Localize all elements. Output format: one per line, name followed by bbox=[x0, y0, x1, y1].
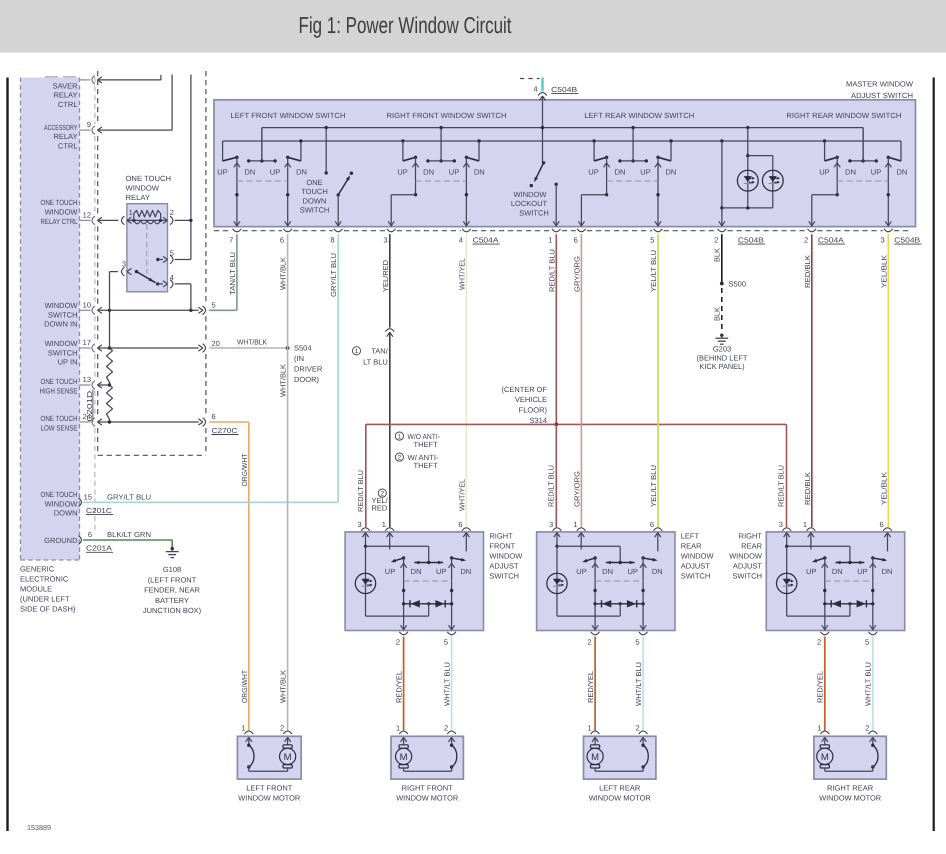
pin 1 stub bbox=[389, 533, 391, 550]
wire WHT/LT BLU adjust pin 5 to motor pin 2 bbox=[451, 637, 453, 731]
GEM pin 9 ACCESSORY wire bbox=[80, 75, 173, 135]
svg-text:KICK PANEL): KICK PANEL) bbox=[700, 362, 745, 371]
svg-text:REAR: REAR bbox=[741, 541, 762, 550]
svg-text:WHT/YEL: WHT/YEL bbox=[457, 479, 466, 511]
middle DN/UP contact bar bbox=[606, 561, 635, 565]
driver door boundary dashed line right bbox=[205, 71, 207, 455]
svg-text:WINDOW MOTOR: WINDOW MOTOR bbox=[238, 793, 301, 802]
label LEFT REAR WINDOW MOTOR bbox=[589, 783, 652, 802]
svg-text:UP: UP bbox=[627, 567, 637, 576]
svg-text:2: 2 bbox=[396, 638, 400, 647]
label RIGHT REAR WINDOW MOTOR bbox=[819, 783, 882, 802]
wire RED/LT BLU drop to right rear adjust switch pin 3 bbox=[786, 424, 788, 527]
junction bus1 left end bbox=[261, 128, 263, 161]
svg-text:LOCKOUT: LOCKOUT bbox=[511, 199, 548, 208]
svg-text:WINDOW: WINDOW bbox=[45, 208, 79, 217]
label ONE TOUCH WINDOW RELAY bbox=[126, 174, 172, 202]
rocker 1 (left) blade and output bbox=[582, 556, 598, 630]
svg-text:RELAY: RELAY bbox=[53, 132, 77, 141]
svg-text:6: 6 bbox=[458, 520, 462, 529]
svg-text:LEFT FRONT: LEFT FRONT bbox=[246, 783, 293, 792]
svg-text:RIGHT FRONT WINDOW SWITCH: RIGHT FRONT WINDOW SWITCH bbox=[387, 111, 507, 120]
svg-text:WHT/BLK: WHT/BLK bbox=[279, 670, 288, 703]
svg-text:17: 17 bbox=[83, 338, 91, 347]
adjust switch bottom pin 5 connector bbox=[444, 632, 456, 647]
svg-text:WHT/LT BLU: WHT/LT BLU bbox=[443, 662, 452, 706]
wire label RED/LT BLU left drop bbox=[356, 470, 365, 512]
section label RIGHT REAR WINDOW SWITCH bbox=[786, 111, 901, 120]
svg-text:FLOOR): FLOOR) bbox=[519, 406, 548, 415]
GEM caption GENERIC ELECTRONIC MODULE (UNDER LEFT SIDE OF DASH) bbox=[20, 565, 76, 614]
svg-text:ONE TOUCH: ONE TOUCH bbox=[41, 377, 78, 386]
master switch pin 6 connector bracket bbox=[280, 229, 292, 245]
illumination LED bbox=[777, 573, 797, 593]
pin 6 stub bbox=[465, 533, 467, 552]
master switch pin 4 connector bracket bbox=[459, 229, 471, 245]
wire label RED/BLK upper bbox=[803, 255, 812, 288]
wire WHT/YEL master pin 4 to right front adjust switch pin 6 bbox=[465, 234, 467, 527]
svg-text:GRY/LT BLU: GRY/LT BLU bbox=[107, 492, 151, 501]
connector label C504B top bbox=[551, 85, 578, 94]
relay coil K1 bbox=[127, 210, 168, 223]
right frame line bbox=[933, 78, 935, 832]
ground G108 bbox=[166, 547, 179, 558]
svg-text:1: 1 bbox=[398, 434, 402, 441]
svg-text:SIDE OF DASH): SIDE OF DASH) bbox=[20, 605, 76, 614]
label S314 CENTER OF VEHICLE FLOOR bbox=[502, 385, 548, 425]
svg-text:YEL/LT BLU: YEL/LT BLU bbox=[649, 250, 658, 292]
wire label RED/LT BLU right drop bbox=[777, 465, 786, 507]
svg-text:ONE TOUCH: ONE TOUCH bbox=[126, 174, 172, 183]
svg-text:ONE: ONE bbox=[306, 178, 322, 187]
adjust switch top pin 1 connector bbox=[382, 520, 394, 537]
wire WHT/BLK master pin 6 to left front motor bbox=[287, 234, 289, 730]
label G108 LEFT FRONT FENDER NEAR BATTERY JUNCTION BOX bbox=[143, 565, 202, 615]
svg-text:C270C: C270C bbox=[212, 426, 238, 435]
svg-text:DN: DN bbox=[474, 168, 485, 177]
resistor R1 one touch high sense bbox=[107, 348, 113, 385]
svg-text:20: 20 bbox=[212, 339, 220, 348]
feed wire from C504B pin 4 top bbox=[520, 78, 547, 163]
LED D2 illumination bbox=[762, 170, 783, 191]
svg-text:RED/LT BLU: RED/LT BLU bbox=[547, 249, 556, 292]
svg-text:RIGHT: RIGHT bbox=[489, 531, 513, 540]
GEM pin 24 ONE TOUCH LOW SENSE wire bbox=[80, 412, 216, 426]
section label LEFT REAR WINDOW SWITCH bbox=[584, 111, 694, 120]
svg-text:ADJUST SWITCH: ADJUST SWITCH bbox=[851, 91, 913, 100]
LED branch feed from bus2 bbox=[719, 139, 725, 226]
pin 6 stub bbox=[887, 533, 889, 552]
adjust switch top pin 6 connector bbox=[458, 520, 470, 537]
adjust switch top pin 6 connector bbox=[650, 520, 662, 537]
figure number 153889 bbox=[27, 823, 51, 832]
svg-text:13: 13 bbox=[83, 375, 91, 384]
svg-text:2: 2 bbox=[398, 455, 402, 462]
left rear rocker UP/DN 2 bbox=[655, 139, 673, 226]
wire ORG/WHT from C270C to left front motor pin 1 bbox=[209, 422, 249, 731]
svg-text:UP: UP bbox=[857, 567, 867, 576]
svg-text:1: 1 bbox=[355, 348, 359, 355]
connector label C504B after pin 2 BLK bbox=[738, 235, 765, 244]
pin 3 feed wire and crossbar bbox=[785, 533, 850, 563]
right front rocker UP/DN 1 bbox=[388, 139, 419, 226]
wire label RED/LT BLU middle drop bbox=[547, 465, 556, 507]
motor bottom link bbox=[249, 770, 288, 772]
GEM label ONE TOUCH LOW SENSE bbox=[41, 414, 78, 432]
adjust switch top pin 3 connector bbox=[358, 520, 370, 537]
wire GRY/ORG master pin 6 to left rear adjust switch pin 1 bbox=[580, 234, 582, 527]
GEM label WINDOW SWITCH DOWN IN bbox=[44, 301, 78, 329]
svg-text:153889: 153889 bbox=[27, 823, 51, 832]
svg-text:RED/YEL: RED/YEL bbox=[816, 671, 825, 703]
wire label WHT/LT BLU bbox=[864, 662, 873, 706]
bus 1 horizontal (window down feed) bbox=[262, 127, 863, 129]
connector label C201C bbox=[86, 506, 113, 515]
svg-text:1: 1 bbox=[817, 724, 821, 733]
svg-text:DOWN: DOWN bbox=[303, 196, 327, 205]
right rear window adjust switch box bbox=[766, 532, 904, 631]
svg-text:JUNCTION BOX): JUNCTION BOX) bbox=[143, 606, 202, 615]
svg-text:ORG/WHT: ORG/WHT bbox=[240, 453, 249, 487]
right rear rocker UP/DN 2 bbox=[885, 141, 901, 227]
svg-text:BLK: BLK bbox=[712, 248, 721, 262]
svg-text:6: 6 bbox=[650, 520, 654, 529]
motor position sensor arc bbox=[450, 737, 457, 771]
connector label C270C bbox=[212, 426, 239, 435]
led return path bbox=[557, 546, 620, 616]
svg-text:RIGHT REAR WINDOW SWITCH: RIGHT REAR WINDOW SWITCH bbox=[786, 111, 901, 120]
svg-text:BATTERY: BATTERY bbox=[155, 596, 189, 605]
svg-text:6: 6 bbox=[88, 530, 92, 539]
svg-text:1: 1 bbox=[573, 520, 577, 529]
led return path bbox=[366, 546, 429, 616]
svg-text:ADJUST: ADJUST bbox=[733, 562, 763, 571]
motor pin 2 connector bbox=[865, 724, 877, 742]
wire label WHT/YEL upper bbox=[457, 258, 466, 290]
relay pin 1 bbox=[121, 208, 132, 225]
svg-text:WINDOW: WINDOW bbox=[729, 552, 763, 561]
svg-text:TAN/LT BLU: TAN/LT BLU bbox=[228, 252, 237, 295]
adjust switch bottom pin 2 connector bbox=[396, 632, 408, 647]
one touch down switch output bbox=[335, 195, 341, 227]
wire WHT/LT BLU adjust pin 5 to motor pin 2 bbox=[872, 637, 874, 731]
wire label YEL/BLK lower bbox=[879, 472, 888, 505]
svg-text:VEHICLE: VEHICLE bbox=[515, 395, 547, 404]
right front rocker dashed link bbox=[416, 180, 467, 182]
svg-text:DN: DN bbox=[244, 168, 255, 177]
wire BLK dashed to ground bbox=[721, 288, 723, 332]
svg-text:LOW SENSE: LOW SENSE bbox=[41, 423, 78, 432]
right rear switch labels UP DN UP DN bbox=[819, 168, 907, 177]
svg-text:GENERIC: GENERIC bbox=[20, 565, 55, 574]
svg-text:ONE TOUCH: ONE TOUCH bbox=[41, 198, 78, 207]
connector label C504A after pin 2 RED/BLK bbox=[818, 235, 845, 244]
left rear rocker dashed link bbox=[607, 180, 658, 182]
wire label YEL/BLK upper bbox=[879, 255, 888, 288]
svg-text:24: 24 bbox=[83, 412, 91, 421]
diode rail with D1 D2 bbox=[825, 600, 873, 607]
svg-text:GRY/ORG: GRY/ORG bbox=[572, 471, 581, 507]
svg-text:2: 2 bbox=[804, 235, 808, 244]
svg-text:GRY/ORG: GRY/ORG bbox=[572, 256, 581, 292]
svg-text:DOWN: DOWN bbox=[54, 509, 78, 518]
svg-text:9: 9 bbox=[87, 120, 91, 129]
master switch pin 3 connector bracket bbox=[881, 229, 893, 245]
svg-text:SWITCH: SWITCH bbox=[519, 209, 549, 218]
svg-text:2: 2 bbox=[636, 724, 640, 733]
wire BLK master pin 2 to S500 bbox=[721, 234, 723, 283]
adjust switch bottom pin 2 connector bbox=[587, 632, 599, 647]
wire RED/LT BLU S314 bus bbox=[366, 423, 787, 425]
svg-text:DN: DN bbox=[460, 567, 471, 576]
svg-text:(CENTER OF: (CENTER OF bbox=[502, 385, 548, 394]
right front DN contact pair bbox=[426, 126, 456, 163]
svg-text:RELAY: RELAY bbox=[53, 91, 77, 100]
relay pin 4 wire bbox=[156, 273, 191, 310]
master switch pin 2 connector bracket bbox=[714, 229, 726, 245]
svg-text:UP: UP bbox=[588, 168, 598, 177]
svg-text:BLK: BLK bbox=[712, 307, 721, 321]
left rear|window motor box bbox=[584, 736, 656, 779]
GEM pin 15 ONE TOUCH WINDOW DOWN wire GRY/LT BLU bbox=[79, 492, 339, 506]
motor pin 1 connector bbox=[241, 724, 253, 742]
svg-text:ADJUST: ADJUST bbox=[489, 562, 519, 571]
svg-text:C504A: C504A bbox=[473, 235, 499, 244]
note 1 TAN/LT BLU bbox=[352, 347, 388, 367]
left front rocker UP/DN 2 bbox=[285, 139, 303, 226]
label ONE TOUCH DOWN SWITCH bbox=[300, 178, 330, 215]
relay pin 2 bbox=[170, 208, 193, 225]
connector label C201D bbox=[85, 390, 94, 422]
svg-text:WHT/BLK: WHT/BLK bbox=[279, 364, 288, 397]
svg-text:C504A: C504A bbox=[818, 235, 844, 244]
svg-text:UP: UP bbox=[871, 168, 881, 177]
svg-text:1: 1 bbox=[588, 724, 592, 733]
motor M bbox=[280, 737, 296, 771]
note 2 W/ ANTI-THEFT bbox=[395, 453, 439, 470]
svg-text:C504B: C504B bbox=[894, 235, 920, 244]
svg-text:GRY/LT BLU: GRY/LT BLU bbox=[329, 253, 338, 297]
wire label WHT/YEL lower bbox=[457, 479, 466, 511]
svg-text:1: 1 bbox=[129, 208, 133, 217]
wire label BLK lower bbox=[712, 307, 721, 321]
rocker dashed link bbox=[595, 580, 643, 582]
label WINDOW LOCKOUT SWITCH bbox=[511, 190, 549, 218]
wire WHT/LT BLU adjust pin 5 to motor pin 2 bbox=[642, 637, 644, 731]
svg-text:HIGH SENSE: HIGH SENSE bbox=[40, 386, 78, 395]
svg-text:ONE TOUCH: ONE TOUCH bbox=[41, 490, 78, 499]
svg-text:SWITCH: SWITCH bbox=[48, 348, 78, 357]
wire YEL/LT BLU master pin 5 to left rear adjust switch pin 6 bbox=[657, 234, 659, 527]
svg-text:WINDOW MOTOR: WINDOW MOTOR bbox=[589, 793, 652, 802]
GEM label ONE TOUCH WINDOW RELAY CTRL bbox=[41, 198, 79, 226]
svg-text:5: 5 bbox=[212, 300, 216, 309]
svg-text:MODULE: MODULE bbox=[20, 585, 52, 594]
bus 2 horizontal (window up feed) bbox=[223, 140, 901, 142]
motor pin 2 connector bbox=[444, 724, 456, 742]
svg-text:8: 8 bbox=[330, 235, 334, 244]
svg-text:UP: UP bbox=[576, 567, 586, 576]
svg-text:G108: G108 bbox=[163, 565, 181, 574]
wire label WHT/BLK upper bbox=[279, 257, 288, 290]
svg-text:ONE TOUCH: ONE TOUCH bbox=[41, 414, 78, 423]
svg-text:RELAY: RELAY bbox=[126, 193, 151, 202]
generic electronic module box (GEM) bbox=[21, 78, 80, 561]
ground G203 bbox=[715, 334, 728, 345]
driver door boundary dashed line bottom bbox=[98, 454, 206, 456]
svg-text:ACCESSORY: ACCESSORY bbox=[44, 123, 78, 132]
wire from relay pins 5/2 riser bbox=[190, 75, 192, 260]
svg-text:RED/BLK: RED/BLK bbox=[803, 472, 812, 505]
svg-text:1: 1 bbox=[382, 520, 386, 529]
connector label C504A after pin 4 bbox=[473, 235, 500, 244]
svg-text:WHT/BLK: WHT/BLK bbox=[237, 337, 267, 346]
wire label WHT/BLK lower bbox=[279, 670, 288, 703]
pin 1 stub bbox=[810, 533, 812, 550]
adjust switch top pin 1 connector bbox=[803, 520, 815, 537]
GEM label GROUND bbox=[44, 536, 78, 545]
svg-text:SWITCH: SWITCH bbox=[48, 310, 78, 319]
svg-text:7: 7 bbox=[229, 235, 233, 244]
svg-text:LT BLU: LT BLU bbox=[363, 358, 388, 367]
svg-text:GROUND: GROUND bbox=[44, 536, 78, 545]
label LEFT FRONT WINDOW MOTOR bbox=[238, 783, 301, 802]
svg-text:DRIVER: DRIVER bbox=[294, 365, 323, 374]
motor pin 2 connector bbox=[280, 724, 292, 742]
right rear rocker dashed link bbox=[837, 180, 888, 182]
svg-text:WHT/BLK: WHT/BLK bbox=[279, 257, 288, 290]
svg-text:WINDOW: WINDOW bbox=[514, 190, 548, 199]
motor pin 2 connector bbox=[636, 724, 648, 742]
svg-text:WINDOW MOTOR: WINDOW MOTOR bbox=[396, 793, 459, 802]
relay pin 5 wire bbox=[156, 249, 191, 264]
master switch pin 7 connector bracket bbox=[229, 229, 241, 245]
relay switch blade bbox=[135, 270, 156, 283]
svg-text:3: 3 bbox=[779, 520, 783, 529]
svg-text:RED/LT BLU: RED/LT BLU bbox=[547, 465, 556, 507]
motor M bbox=[817, 737, 833, 771]
wire label TAN/LT BLU bbox=[228, 252, 237, 295]
svg-text:RIGHT FRONT: RIGHT FRONT bbox=[402, 783, 454, 792]
motor M bbox=[396, 737, 412, 771]
GEM pin 12 wire to relay pin 1 bbox=[80, 211, 119, 225]
svg-text:DN: DN bbox=[845, 168, 856, 177]
right front|window motor box bbox=[391, 736, 463, 779]
wire label GRY/ORG upper bbox=[572, 256, 581, 292]
adjust switch bottom pin 5 connector bbox=[635, 632, 647, 647]
junction resistor top on pin 17 wire bbox=[108, 346, 111, 349]
svg-text:(IN: (IN bbox=[294, 354, 304, 363]
svg-text:MASTER WINDOW: MASTER WINDOW bbox=[846, 79, 914, 88]
svg-text:S504: S504 bbox=[294, 344, 312, 353]
svg-text:UP: UP bbox=[217, 168, 227, 177]
rocker 1 (left) blade and output bbox=[812, 556, 828, 630]
rocker 2 (right) blade and output bbox=[640, 556, 658, 630]
adjust switch top pin 6 connector bbox=[880, 520, 892, 537]
LED return bus bbox=[722, 206, 773, 209]
wire YEL/RED master pin 3 upper segment bbox=[389, 234, 391, 327]
left rear window adjust switch box bbox=[537, 532, 675, 631]
svg-text:C504B: C504B bbox=[551, 85, 577, 94]
rocker dashed link bbox=[404, 580, 452, 582]
svg-text:UP: UP bbox=[270, 168, 280, 177]
svg-text:(UNDER LEFT: (UNDER LEFT bbox=[20, 595, 70, 604]
wire YEL/RED lower segment to right front adjust switch pin 1 bbox=[389, 332, 391, 527]
GEM label ONE TOUCH HIGH SENSE bbox=[40, 377, 78, 395]
svg-text:S500: S500 bbox=[729, 280, 747, 289]
svg-text:DN: DN bbox=[615, 168, 626, 177]
svg-text:CTRL: CTRL bbox=[58, 142, 78, 151]
svg-text:1: 1 bbox=[396, 724, 400, 733]
master switch pin 8 connector bracket bbox=[330, 229, 342, 245]
section label RIGHT FRONT WINDOW SWITCH bbox=[387, 111, 507, 120]
wire label WHT/BLK middle bbox=[279, 364, 288, 397]
window lockout switch output contact bbox=[553, 183, 559, 227]
illumination LED bbox=[547, 573, 567, 593]
adjust switch top pin 3 connector bbox=[779, 520, 791, 537]
wire TAN/LT BLU master pin 7 bbox=[209, 234, 237, 310]
svg-text:WINDOW: WINDOW bbox=[45, 301, 79, 310]
left rear rocker UP/DN 1 bbox=[578, 139, 609, 226]
led return path bbox=[787, 546, 850, 616]
svg-text:DN: DN bbox=[411, 567, 422, 576]
header bar bbox=[0, 0, 946, 53]
svg-text:2: 2 bbox=[865, 724, 869, 733]
splice S500 bbox=[720, 280, 746, 289]
section label LEFT FRONT WINDOW SWITCH bbox=[231, 111, 346, 120]
svg-text:REAR: REAR bbox=[681, 541, 702, 550]
svg-text:RELAY CTRL: RELAY CTRL bbox=[41, 217, 78, 226]
adjust switch bottom pin 2 connector bbox=[817, 632, 829, 647]
svg-text:M: M bbox=[591, 752, 599, 763]
left front DN contact pair bbox=[247, 128, 277, 163]
wire label RED/YEL bbox=[586, 671, 595, 703]
svg-text:S314: S314 bbox=[529, 416, 547, 425]
label RIGHT FRONT WINDOW MOTOR bbox=[396, 783, 459, 802]
svg-text:RED: RED bbox=[372, 503, 388, 512]
one touch down switch blade bbox=[337, 172, 354, 197]
svg-text:6: 6 bbox=[880, 520, 884, 529]
GEM pin 6 GROUND wire BLK/LT GRN bbox=[79, 530, 173, 547]
switch labels UP DN UP DN bbox=[806, 567, 892, 576]
GEM label ACCESSORY RELAY CTRL bbox=[44, 123, 78, 151]
svg-text:4: 4 bbox=[533, 85, 537, 94]
rocker 1 (left) blade and output bbox=[391, 556, 407, 630]
svg-text:1: 1 bbox=[241, 724, 245, 733]
LED D2 branch bbox=[748, 156, 773, 208]
svg-text:UP: UP bbox=[640, 168, 650, 177]
svg-text:DN: DN bbox=[423, 168, 434, 177]
wire RED/BLK master pin 2 to right rear adjust switch pin 1 bbox=[811, 234, 813, 527]
left front rocker dashed link bbox=[237, 180, 288, 182]
svg-text:2: 2 bbox=[817, 638, 821, 647]
wire label RED/YEL bbox=[816, 671, 825, 703]
wire label ORG/WHT upper bbox=[240, 453, 249, 487]
switch labels UP DN UP DN bbox=[576, 567, 662, 576]
svg-text:RIGHT REAR: RIGHT REAR bbox=[827, 783, 874, 792]
inline connector on YEL/RED wire bbox=[386, 329, 395, 337]
right front window adjust switch box bbox=[345, 532, 483, 631]
svg-text:2: 2 bbox=[587, 638, 591, 647]
svg-text:FENDER, NEAR: FENDER, NEAR bbox=[144, 586, 200, 595]
label RIGHT REAR WINDOW ADJUST SWITCH bbox=[729, 531, 763, 580]
svg-text:ELECTRONIC: ELECTRONIC bbox=[20, 575, 69, 584]
svg-text:ADJUST: ADJUST bbox=[681, 562, 711, 571]
svg-text:M: M bbox=[284, 752, 292, 763]
GEM pin 10 WINDOW SWITCH DOWN IN wire bbox=[80, 300, 216, 314]
svg-text:DN: DN bbox=[832, 567, 843, 576]
svg-text:DN: DN bbox=[652, 567, 663, 576]
